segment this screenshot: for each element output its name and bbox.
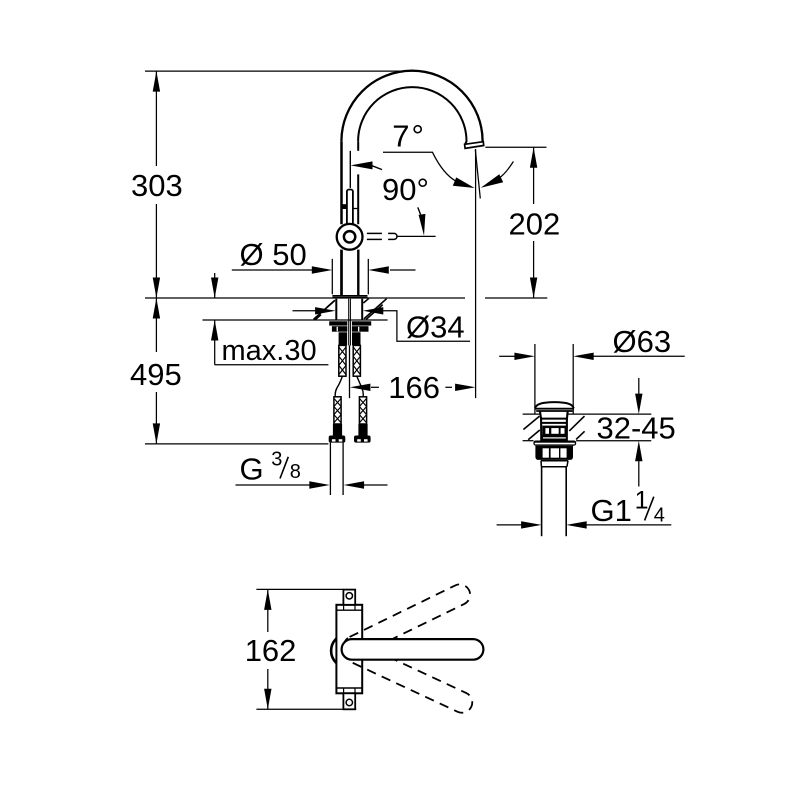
upper hose left	[339, 345, 346, 376]
arrow max30 top (down)	[211, 278, 218, 299]
sink hatch left	[523, 416, 539, 429]
hose end cap right	[354, 436, 371, 443]
arrow left (points right)	[315, 307, 336, 314]
pivot circle	[331, 634, 365, 668]
dimension line 495	[155, 298, 157, 352]
svg-text:32-45: 32-45	[597, 411, 676, 446]
dashed lever up	[340, 581, 473, 660]
locknut	[535, 446, 573, 460]
valve neck through sink	[540, 411, 568, 441]
arrow left (points right)	[309, 481, 330, 488]
svg-text:4: 4	[654, 505, 665, 527]
arrow left (points right)	[312, 266, 333, 273]
tailpipe	[541, 467, 543, 537]
arrow right (points left)	[368, 266, 389, 273]
shelf line	[383, 152, 457, 181]
svg-text:Ø63: Ø63	[613, 324, 672, 359]
arrow 303 bottom (down)	[153, 278, 160, 299]
reference line to lever tip	[397, 235, 436, 237]
sink hatch right	[569, 416, 584, 431]
cap base plate	[535, 408, 575, 410]
leader to horizontal lever line	[419, 214, 426, 236]
base flange	[332, 295, 367, 297]
extension line at spout outlet	[485, 146, 546, 148]
mounting nut	[332, 326, 369, 332]
sink surface top line	[523, 413, 540, 415]
shank wall left	[335, 299, 337, 321]
162 extension lines	[256, 588, 343, 590]
arrow Ø63 right (points left)	[573, 353, 594, 360]
flexible hoses	[329, 345, 371, 495]
label G 3/8	[240, 449, 301, 487]
hose break curve left	[335, 376, 342, 397]
extension lines	[331, 259, 333, 294]
right arc	[499, 162, 514, 179]
svg-text:7°: 7°	[392, 119, 426, 154]
lever rod	[347, 190, 353, 232]
tilted 7deg ray	[475, 150, 480, 199]
arrow max30 bottom (up)	[211, 320, 218, 341]
svg-text:162: 162	[245, 633, 297, 668]
DRAIN VALVE VIEW	[497, 324, 685, 536]
valve cap dome	[535, 402, 574, 408]
dashed lever positions	[340, 581, 475, 716]
lever axis extension line	[349, 151, 351, 188]
sink bottom line	[523, 440, 534, 442]
svg-text:1: 1	[635, 487, 649, 515]
Ø63 dimension line	[499, 355, 515, 357]
hatch left of shank	[327, 300, 335, 307]
max.30 leader line	[214, 273, 216, 298]
svg-text:3: 3	[271, 449, 282, 471]
dimension line 303	[155, 71, 157, 166]
leader with corner	[383, 311, 470, 342]
upper hose right	[353, 345, 360, 376]
dashed lever down	[342, 639, 476, 716]
body column left edge	[340, 141, 343, 224]
spout inner arc	[358, 87, 466, 145]
svg-text:90°: 90°	[382, 172, 429, 207]
dimension line 202	[533, 147, 535, 204]
32-45 dimension	[638, 378, 640, 394]
arrow 202 bottom (down)	[530, 278, 537, 299]
hatch right of shank	[363, 298, 369, 303]
arrow 202 top (up)	[530, 147, 537, 168]
arrow 495 top (up)	[153, 298, 160, 319]
svg-text:Ø 50: Ø 50	[240, 237, 307, 272]
neck lower band	[542, 436, 568, 441]
dimension line	[232, 269, 313, 271]
svg-text:495: 495	[130, 357, 182, 392]
TOP VIEW	[245, 581, 484, 716]
solid lever	[342, 639, 484, 660]
svg-text:G: G	[240, 451, 264, 486]
G 3/8 dimension	[236, 481, 388, 488]
counter bottom line	[203, 319, 388, 321]
svg-text:max.30: max.30	[222, 335, 317, 367]
extension line hose end	[145, 443, 328, 445]
FAUCET FRONT VIEW	[332, 71, 483, 299]
shank wall right	[361, 299, 363, 321]
svg-text:303: 303	[131, 168, 183, 203]
svg-text:G1: G1	[591, 493, 632, 528]
svg-text:166: 166	[388, 370, 440, 405]
arrow right (points left)	[363, 307, 384, 314]
hose connector nuts	[339, 332, 348, 345]
COUNTER SECTION AT FAUCET	[314, 298, 387, 320]
counter top line	[145, 297, 465, 299]
7 deg annotation	[383, 119, 513, 398]
body seam right tick	[353, 208, 358, 210]
Ø63 extension lines	[534, 344, 536, 414]
leader to vertical lever axis	[351, 161, 373, 169]
transition ring	[541, 461, 568, 467]
arrow at stream line (points right)	[455, 384, 476, 391]
extension line top of spout	[145, 70, 400, 72]
arrow Ø63 left (points right)	[514, 353, 535, 360]
90 deg annotation	[351, 161, 429, 235]
handle joint outer circle	[337, 224, 363, 250]
162 dimension line	[267, 589, 269, 632]
svg-text:8: 8	[290, 461, 301, 483]
overflow slot box	[542, 426, 567, 436]
washer (black)	[329, 321, 371, 325]
handle joint inner circle	[344, 231, 355, 242]
lower hose right	[359, 397, 366, 424]
arrow right (points left)	[344, 481, 365, 488]
body outline	[336, 605, 362, 694]
white centre gap	[347, 321, 352, 346]
Ø50 dimension	[232, 259, 416, 294]
spout outer arc	[341, 71, 482, 142]
hose end nut left	[333, 424, 342, 436]
arc arrow toward vertical ray	[453, 177, 475, 188]
hose end nut right	[358, 424, 367, 436]
dashed lever rotated 90 deg	[367, 233, 436, 239]
arrow 303 top (up)	[153, 71, 160, 92]
hose end cap left	[329, 436, 346, 443]
svg-text:Ø34: Ø34	[406, 310, 465, 345]
166 dimension	[350, 384, 476, 391]
body column right edge	[357, 141, 359, 151]
hose break curve right	[357, 376, 363, 397]
top tab	[343, 590, 355, 605]
lower hose left	[334, 397, 341, 424]
G1 1/4 dimension	[497, 524, 522, 526]
threaded stud centre lines	[348, 299, 350, 346]
arrow 495 bottom (down)	[153, 423, 160, 444]
FRONT VIEW DIMENSIONS	[145, 71, 547, 444]
bottom tab	[343, 693, 355, 709]
svg-text:202: 202	[509, 207, 561, 242]
arrow at centre axis (points left)	[350, 384, 371, 391]
seal flange	[533, 441, 576, 446]
Ø34 dimension	[293, 307, 471, 341]
vertical ray (water stream axis)	[475, 149, 477, 398]
body seam left tick	[341, 204, 347, 209]
spout mouth aerator cap	[465, 142, 484, 149]
arc arrow toward 7deg ray	[481, 174, 503, 188]
202 dimension	[485, 147, 546, 298]
supply pipe left	[329, 443, 331, 495]
